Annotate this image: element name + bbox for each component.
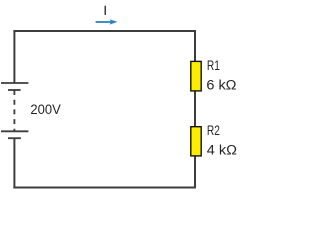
battery V1 cell2 positive plate bbox=[1, 130, 28, 132]
battery V1 cell1 negative plate bbox=[8, 89, 21, 91]
svg-text:R1: R1 bbox=[207, 58, 220, 73]
svg-text:200V: 200V bbox=[30, 102, 60, 117]
svg-text:6 kΩ: 6 kΩ bbox=[206, 78, 236, 93]
wire left upper bbox=[13, 30, 15, 83]
battery V1 dashed cell link bbox=[13, 90, 15, 131]
svg-text:4 kΩ: 4 kΩ bbox=[207, 143, 237, 158]
wire right middle bbox=[194, 91, 196, 127]
svg-text:R2: R2 bbox=[207, 123, 220, 138]
battery V1 cell2 negative plate bbox=[8, 137, 21, 139]
battery V1 cell1 positive plate bbox=[1, 82, 28, 84]
wire right lower bbox=[194, 156, 196, 189]
current label I bbox=[105, 6, 107, 15]
resistor R2 bbox=[191, 127, 201, 156]
wire right upper bbox=[194, 30, 196, 61]
wire top bbox=[13, 30, 196, 32]
resistor R1 bbox=[191, 61, 201, 91]
current arrow shaft bbox=[96, 21, 111, 23]
wire bottom bbox=[13, 187, 196, 189]
wire left lower bbox=[13, 138, 15, 189]
current arrow head bbox=[110, 19, 118, 24]
